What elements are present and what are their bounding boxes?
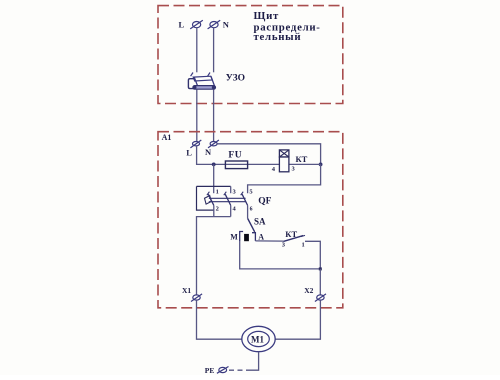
relay coil KT — [279, 150, 289, 172]
title Щит распределительный — [254, 10, 321, 43]
wire junction down to QF pole 1 — [213, 164, 215, 193]
box A1 dashed — [158, 132, 343, 308]
wire down to X2 — [319, 269, 321, 295]
QF pole 2 top lead — [230, 186, 232, 193]
fuse FU — [225, 161, 247, 169]
junction dot right — [319, 163, 323, 167]
wire L from RCD to box A1 — [196, 90, 198, 142]
QF pole 1 contact — [207, 192, 214, 206]
svg-text:2: 2 — [216, 205, 219, 212]
wire KT contact to right down — [305, 241, 320, 269]
position marker black square — [244, 234, 249, 241]
wire А to KT contact — [255, 240, 283, 242]
switch SA blade — [248, 219, 255, 232]
wire right junction down to QF pole 3 — [248, 164, 321, 193]
svg-text:тельный: тельный — [254, 31, 302, 43]
svg-text:L: L — [179, 20, 185, 30]
svg-text:A1: A1 — [162, 133, 172, 142]
contact KT tick — [301, 235, 305, 236]
contact KT blade — [283, 236, 303, 242]
svg-text:М1: М1 — [251, 335, 264, 345]
svg-text:Щит: Щит — [254, 10, 280, 22]
terminal L (A1) — [190, 140, 201, 148]
wire KT coil to right junction — [289, 163, 321, 165]
svg-text:L: L — [186, 148, 192, 158]
svg-text:5: 5 — [249, 188, 253, 195]
svg-text:X1: X1 — [182, 286, 191, 295]
QF pole 3 bottom lead — [247, 205, 249, 218]
svg-text:QF: QF — [258, 196, 271, 206]
terminal X1 — [191, 294, 202, 302]
wire N from RCD to box A1 — [213, 90, 215, 142]
svg-text:УЗО: УЗО — [226, 74, 245, 84]
terminal L top — [190, 20, 203, 29]
QF pole 1,2 bottom leads to bus — [213, 205, 215, 216]
motor bottom lead — [251, 352, 259, 371]
svg-text:X2: X2 — [304, 286, 313, 295]
distribution board dashed box — [158, 6, 343, 104]
junction square — [319, 267, 322, 270]
terminal N top — [208, 20, 221, 29]
bus wire to left and down to X1 — [197, 217, 231, 295]
wire X1 down to motor — [197, 300, 242, 339]
svg-text:КТ: КТ — [296, 154, 308, 164]
svg-text:М: М — [230, 232, 238, 241]
svg-text:N: N — [223, 20, 230, 30]
RCD УЗО symbol — [188, 73, 215, 90]
svg-text:3: 3 — [282, 242, 286, 249]
svg-text:4: 4 — [233, 206, 237, 213]
contact М bracket — [240, 232, 243, 242]
svg-text:N: N — [205, 147, 212, 157]
svg-text:FU: FU — [228, 151, 242, 161]
svg-text:3: 3 — [292, 166, 296, 173]
wire N down to RCD — [213, 28, 215, 73]
breaker QF release box — [197, 186, 231, 210]
PE dashed wire — [228, 369, 251, 371]
svg-text:6: 6 — [250, 206, 253, 212]
wire N right and down to KT coil right side — [217, 144, 321, 165]
svg-text:1: 1 — [302, 242, 305, 249]
QF linkage bar — [209, 198, 246, 201]
terminal N (A1) — [208, 140, 219, 148]
QF pole 3 contact — [241, 192, 248, 206]
terminal X2 — [315, 294, 326, 302]
contact А bracket — [252, 233, 255, 241]
svg-text:3: 3 — [233, 188, 237, 195]
svg-text:4: 4 — [272, 166, 276, 173]
junction dot — [212, 163, 216, 167]
QF pole 2 contact — [224, 192, 231, 206]
svg-text:PE: PE — [205, 366, 215, 375]
wire М down and right (bottom bus) — [240, 241, 321, 269]
svg-text:КТ: КТ — [285, 229, 297, 239]
svg-text:А: А — [258, 232, 264, 241]
svg-text:1: 1 — [216, 188, 219, 195]
wire L down to RCD — [196, 28, 198, 73]
motor M1 — [242, 326, 275, 351]
wire L down then right to fuse — [197, 146, 280, 165]
wire X2 down to motor — [275, 300, 320, 339]
terminal PE — [217, 367, 229, 374]
svg-text:SA: SA — [254, 217, 266, 227]
